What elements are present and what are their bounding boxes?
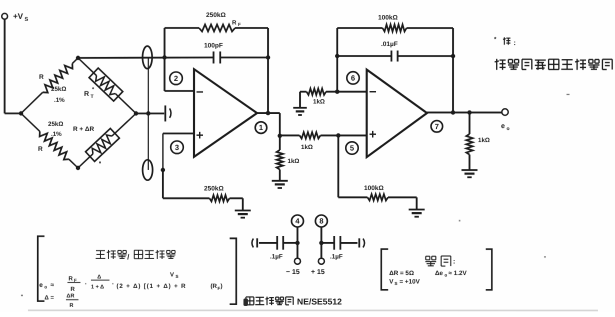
capacitor .1uF left: [252, 236, 298, 250]
svg-text:3: 3: [175, 143, 179, 152]
svg-text:R: R: [70, 286, 75, 293]
node fb2 right: [451, 54, 455, 58]
svg-text:o: o: [44, 284, 47, 289]
svg-text:R: R: [68, 275, 73, 282]
svg-text:8: 8: [319, 217, 323, 226]
svg-text:100kΩ: 100kΩ: [378, 15, 398, 22]
label 100k bottom: [364, 185, 384, 192]
label +15: [311, 269, 325, 276]
label 1k load: [478, 137, 490, 144]
label 250k bottom: [204, 185, 224, 192]
ground below load: [461, 170, 477, 177]
label 1k vertical: [287, 158, 299, 165]
svg-text:7: 7: [435, 122, 439, 131]
svg-text:o: o: [507, 126, 510, 132]
svg-text:R: R: [39, 74, 44, 81]
svg-text:.1µF: .1µF: [270, 253, 283, 260]
svg-text:S: S: [175, 274, 178, 279]
label example: [425, 256, 455, 266]
resistor 250k to ground: [163, 170, 243, 210]
node bridge right: [134, 111, 138, 115]
label 1k pin6: [313, 99, 325, 106]
terminal -15: [294, 258, 300, 264]
svg-text:1kΩ: 1kΩ: [287, 158, 299, 165]
formula delta definition: [44, 293, 78, 309]
formula dR line: [389, 270, 467, 278]
svg-text:.01µF: .01µF: [381, 41, 398, 48]
speck near note: [567, 94, 570, 95]
svg-text:250kΩ: 250kΩ: [204, 185, 224, 192]
svg-text:100kΩ: 100kΩ: [364, 185, 384, 192]
speck bottom right: [243, 298, 248, 306]
cable loop bottom: [143, 160, 153, 180]
bracket right formula ]: [486, 249, 492, 290]
svg-text:1kΩ: 1kΩ: [478, 137, 490, 144]
svg-text:250kΩ: 250kΩ: [206, 12, 226, 19]
svg-text:+V: +V: [13, 12, 24, 21]
svg-text:·: ·: [112, 281, 114, 288]
wire pin4 down: [296, 227, 298, 258]
speck left margin: [21, 295, 23, 296]
terminal +15: [318, 258, 324, 264]
ground pin6: [293, 108, 307, 115]
speck mid right: [459, 220, 461, 222]
node output load: [467, 110, 471, 114]
svg-text:·: ·: [85, 281, 87, 288]
node pin5 junction: [336, 133, 340, 137]
terminal +VS: [2, 12, 29, 23]
label 250k RF: [206, 12, 241, 27]
label R top-left: [39, 74, 44, 81]
node feedback left: [162, 55, 166, 59]
svg-text:Δe: Δe: [435, 270, 444, 277]
svg-text:+ 15: + 15: [311, 269, 325, 276]
scan streak bottom: [28, 310, 598, 312]
svg-text:.1%: .1%: [54, 97, 65, 104]
svg-text:Δ =: Δ =: [44, 294, 54, 301]
svg-text:.1%: .1%: [51, 131, 62, 138]
wire feedback2 left vertical: [336, 28, 338, 92]
note 注:: [503, 37, 516, 47]
svg-text:R + ΔR: R + ΔR: [73, 126, 94, 133]
svg-text:V: V: [170, 271, 174, 278]
capacitor .01uF: [337, 51, 453, 62]
resistor 100k feedback: [337, 25, 453, 32]
wire shield vertical: [147, 57, 149, 169]
pin 1: [255, 122, 267, 134]
label .1uF right: [330, 254, 343, 261]
capacitor shield stub: [165, 105, 171, 121]
ground below output 1k: [272, 181, 288, 188]
label eo: [501, 123, 510, 132]
label R bottom-left: [38, 146, 43, 153]
ground below 100k: [409, 210, 425, 217]
node cap right: [266, 55, 270, 59]
svg-text:= +10V: = +10V: [399, 279, 420, 286]
resistor 1k load: [466, 112, 472, 169]
op-amp U1: [194, 69, 257, 157]
node bridge top: [76, 56, 80, 60]
resistor 1k to pin5: [280, 132, 367, 138]
wire pin2 lead: [165, 90, 194, 92]
node pin4: [295, 241, 299, 245]
thermistor RT top-right arm: [78, 58, 136, 114]
node shield tap: [146, 111, 150, 115]
terminal eo: [502, 109, 508, 115]
resistor R 25k 0.1% top-left arm: [21, 58, 78, 114]
formula title sensor/preamp gain: [96, 250, 176, 262]
svg-text:2: 2: [174, 74, 178, 83]
bracket left formula [: [38, 236, 45, 301]
cable loop top: [143, 46, 153, 69]
svg-text:e: e: [39, 282, 43, 289]
node output fb: [451, 110, 455, 114]
label .01uF: [381, 41, 398, 48]
speck right formula: [544, 256, 546, 258]
wire feedback right vertical: [267, 28, 269, 113]
op-amp U2: [367, 70, 427, 158]
node pin3 junction: [161, 168, 165, 172]
wire op-amp1 output: [257, 113, 280, 136]
resistor R 25k 0.1% bottom-left arm: [21, 113, 78, 168]
node pin8: [319, 241, 323, 245]
svg-text:): ): [220, 283, 222, 290]
note marker: [494, 36, 497, 43]
wire feedback2 right vertical: [452, 28, 454, 112]
label RT: [84, 87, 95, 100]
label .1uF left: [270, 253, 283, 260]
svg-text:F: F: [238, 22, 241, 27]
svg-text:R: R: [84, 91, 89, 98]
svg-text:25kΩ: 25kΩ: [51, 86, 66, 93]
bracket right formula [: [381, 249, 388, 290]
svg-text:R: R: [69, 303, 73, 309]
svg-text:1: 1: [259, 123, 263, 132]
label 25k bottom-left: [48, 121, 63, 138]
wire +VS down to bridge left: [5, 19, 21, 113]
resistor R+ΔR bottom-right arm: [78, 113, 136, 168]
wire pin8 down: [320, 227, 322, 258]
resistor RF 250k feedback: [165, 24, 269, 31]
svg-text:S: S: [394, 281, 397, 286]
label R+ΔR: [73, 126, 94, 133]
label 25k top-left: [51, 86, 66, 104]
svg-text:6: 6: [351, 74, 355, 83]
node fb2 left: [335, 54, 339, 58]
label -15: [286, 269, 300, 276]
svg-text:(2 + Δ) [(1 + Δ) + R: (2 + Δ) [(1 + Δ) + R: [116, 283, 186, 290]
svg-text::: :: [514, 40, 516, 47]
node bridge left: [19, 111, 23, 115]
svg-text:25kΩ: 25kΩ: [48, 121, 63, 128]
svg-text:.1µF: .1µF: [330, 254, 343, 261]
resistor 1k pin6 to ground: [300, 88, 367, 107]
bracket left formula ]: [230, 238, 237, 304]
svg-text:5: 5: [350, 144, 354, 153]
node feedback-output: [266, 111, 270, 115]
pin 6: [347, 72, 359, 84]
svg-text:R: R: [232, 19, 237, 26]
pin 7: [431, 121, 443, 133]
capacitor .1uF right: [321, 236, 364, 250]
svg-text:100pF: 100pF: [204, 42, 223, 49]
pin 5: [346, 142, 358, 154]
svg-text:e: e: [501, 123, 505, 130]
speck bridge arm: [99, 162, 101, 164]
svg-text:≈: ≈: [50, 282, 54, 289]
capacitor 100pF: [214, 51, 269, 63]
pin 4: [291, 215, 303, 227]
svg-text:≈ 1.2V: ≈ 1.2V: [448, 270, 467, 277]
svg-text:ΔR: ΔR: [66, 293, 74, 299]
svg-text::: :: [453, 259, 455, 266]
svg-text:(R: (R: [210, 283, 217, 290]
svg-text:− 15: − 15: [286, 269, 300, 276]
formula VS line: [389, 279, 420, 287]
node output junction: [278, 134, 282, 138]
svg-text:1 + Δ: 1 + Δ: [91, 284, 104, 290]
note line2 thermal sensor text: [495, 59, 615, 70]
label 100k feedback: [378, 15, 398, 22]
formula eo equation: [39, 271, 222, 293]
node pin6 junction: [335, 90, 339, 94]
svg-text:R: R: [38, 146, 43, 153]
pin 2: [170, 72, 183, 85]
ground below 250k: [235, 210, 251, 217]
label 1k interstage: [301, 144, 313, 151]
label IC is NE/SE5512: [246, 297, 342, 307]
pin 3: [171, 141, 184, 154]
svg-text:1kΩ: 1kΩ: [313, 99, 325, 106]
wire bridge top to opamp1 feedback node: [78, 56, 213, 59]
wire feedback left vertical: [164, 28, 166, 91]
svg-text:Δ: Δ: [97, 274, 101, 280]
node bridge bottom: [76, 166, 80, 170]
svg-text:S: S: [25, 17, 29, 23]
svg-text:T: T: [91, 94, 94, 100]
svg-text:o: o: [444, 272, 447, 277]
svg-text:NE/SE5512: NE/SE5512: [297, 297, 342, 307]
pin 8: [315, 215, 327, 227]
wire bridge right to cap: [136, 112, 164, 114]
resistor 1k to ground from output: [277, 136, 283, 181]
svg-text:1kΩ: 1kΩ: [301, 144, 313, 151]
label 100pF: [204, 42, 223, 49]
wire pin3 lead: [163, 133, 194, 170]
resistor 100k pin5 to ground: [338, 135, 416, 209]
svg-text:ΔR = 5Ω: ΔR = 5Ω: [389, 270, 414, 277]
wire op-amp2 output: [427, 111, 502, 113]
